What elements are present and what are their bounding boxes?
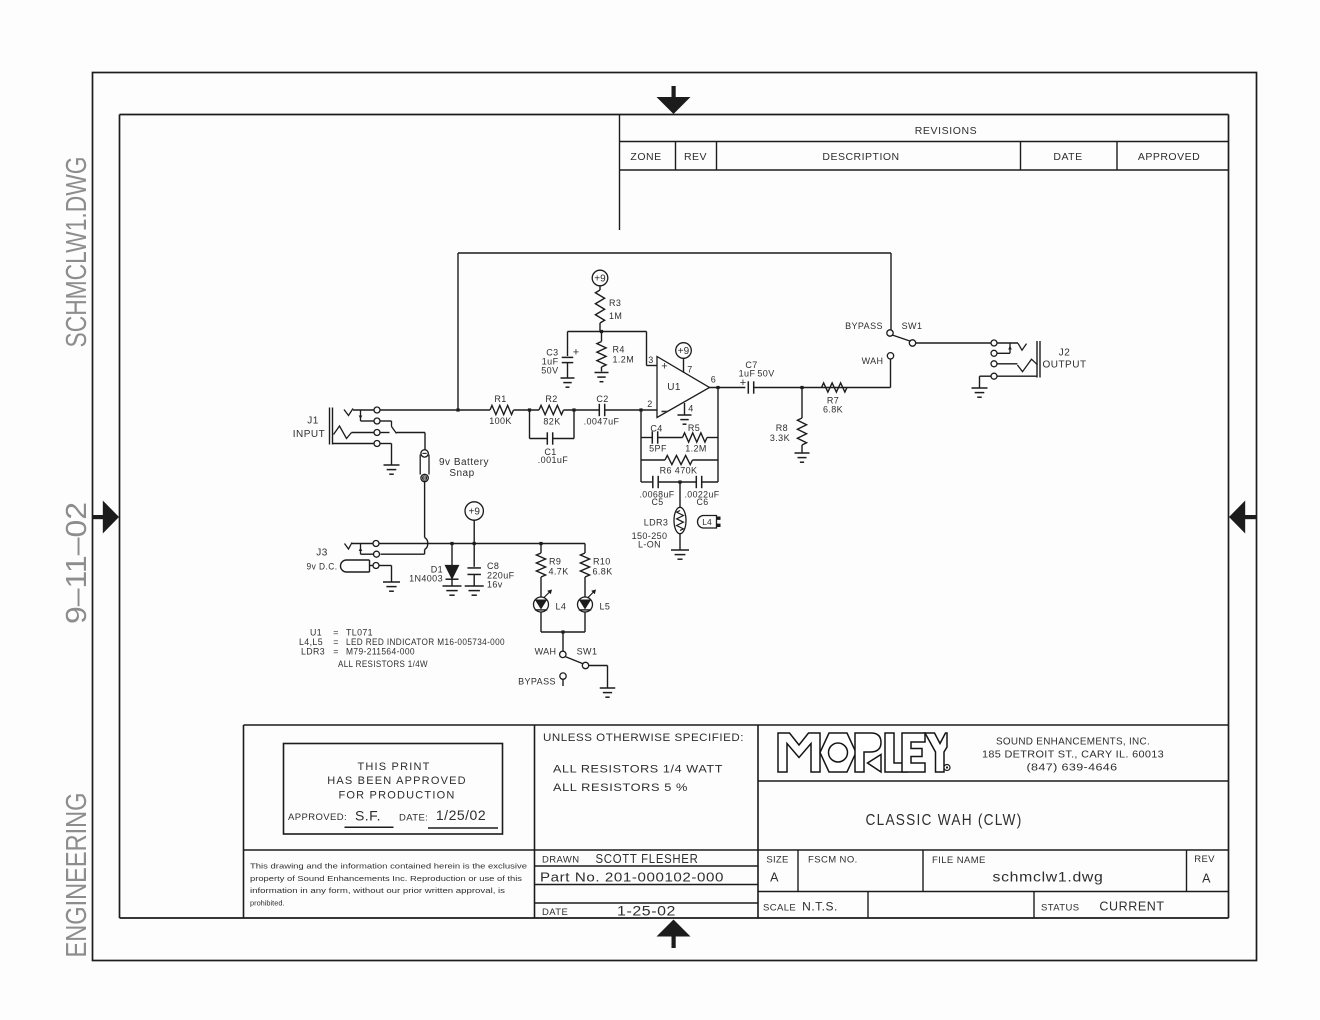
svg-text:L4: L4 xyxy=(556,602,567,612)
svg-text:.0047uF: .0047uF xyxy=(584,417,620,427)
svg-text:50V: 50V xyxy=(541,366,558,376)
svg-text:100K: 100K xyxy=(489,416,512,426)
svg-text:DATE: DATE xyxy=(1053,151,1082,163)
svg-text:=: = xyxy=(333,628,339,638)
svg-text:DRAWN: DRAWN xyxy=(542,855,580,866)
svg-text:9v Battery: 9v Battery xyxy=(439,457,489,468)
svg-text:M79-211564-000: M79-211564-000 xyxy=(346,647,415,657)
svg-text:This drawing and the informati: This drawing and the information contain… xyxy=(250,862,527,871)
svg-text:1M: 1M xyxy=(609,311,622,321)
svg-text:R4: R4 xyxy=(613,345,625,355)
svg-text:CURRENT: CURRENT xyxy=(1099,900,1164,914)
svg-text:BYPASS: BYPASS xyxy=(518,677,556,687)
svg-text:6.8K: 6.8K xyxy=(823,405,843,415)
svg-text:BYPASS: BYPASS xyxy=(845,321,883,331)
svg-text:C8: C8 xyxy=(487,561,499,571)
svg-text:LDR3: LDR3 xyxy=(301,647,325,657)
svg-text:DATE:: DATE: xyxy=(399,813,428,824)
svg-text:6.8K: 6.8K xyxy=(593,567,613,577)
svg-text:schmclw1.dwg: schmclw1.dwg xyxy=(993,870,1104,885)
svg-text:R8: R8 xyxy=(776,423,788,433)
svg-text:REV: REV xyxy=(1194,854,1215,865)
svg-text:C4: C4 xyxy=(650,424,662,434)
svg-text:INPUT: INPUT xyxy=(293,429,326,440)
svg-text:R3: R3 xyxy=(609,298,621,308)
svg-text:UNLESS OTHERWISE SPECIFIED:: UNLESS OTHERWISE SPECIFIED: xyxy=(543,732,744,744)
svg-text:50V: 50V xyxy=(757,369,774,379)
svg-text:APPROVED: APPROVED xyxy=(1138,151,1200,163)
svg-text:2: 2 xyxy=(647,399,652,409)
svg-text:1.2M: 1.2M xyxy=(685,444,707,454)
svg-text:L-ON: L-ON xyxy=(638,540,661,550)
svg-text:4.7K: 4.7K xyxy=(549,567,569,577)
svg-text:82K: 82K xyxy=(543,417,560,427)
svg-text:Part No. 201-000102-000: Part No. 201-000102-000 xyxy=(540,870,724,885)
svg-text:SOUND ENHANCEMENTS, INC.: SOUND ENHANCEMENTS, INC. xyxy=(996,737,1150,748)
svg-text:1/25/02: 1/25/02 xyxy=(436,807,486,823)
svg-text:WAH: WAH xyxy=(862,356,884,366)
svg-text:1.2M: 1.2M xyxy=(613,355,635,365)
svg-text:STATUS: STATUS xyxy=(1041,903,1079,914)
svg-text:1uF: 1uF xyxy=(739,369,756,379)
svg-text:+: + xyxy=(661,361,667,373)
svg-text:+: + xyxy=(740,377,746,389)
svg-text:prohibited.: prohibited. xyxy=(250,898,285,907)
svg-text:C6: C6 xyxy=(696,497,708,507)
svg-text:A: A xyxy=(1202,872,1211,886)
svg-text:3: 3 xyxy=(648,355,653,365)
svg-text:LDR3: LDR3 xyxy=(644,518,669,528)
svg-text:L4,L5: L4,L5 xyxy=(299,637,323,647)
svg-text:+9: +9 xyxy=(678,346,690,357)
svg-text:=: = xyxy=(333,637,339,647)
svg-text:R2: R2 xyxy=(545,394,557,404)
svg-text:J2: J2 xyxy=(1059,348,1071,359)
svg-text:ALL RESISTORS 1/4W: ALL RESISTORS 1/4W xyxy=(338,659,428,669)
svg-text:S.F.: S.F. xyxy=(355,808,381,824)
svg-text:=: = xyxy=(333,647,339,657)
svg-text:SCOTT FLESHER: SCOTT FLESHER xyxy=(596,851,699,866)
svg-text:R10: R10 xyxy=(593,557,611,567)
svg-text:J3: J3 xyxy=(316,548,328,559)
svg-text:L5: L5 xyxy=(600,602,611,612)
svg-text:C2: C2 xyxy=(596,394,608,404)
svg-text:ALL RESISTORS 5 %: ALL RESISTORS 5 % xyxy=(553,782,688,794)
svg-text:property of Sound Enhancements: property of Sound Enhancements Inc. Repr… xyxy=(250,874,522,883)
svg-text:THIS PRINT: THIS PRINT xyxy=(357,761,430,773)
svg-text:R1: R1 xyxy=(494,394,506,404)
svg-text:6: 6 xyxy=(711,375,716,385)
svg-text:R9: R9 xyxy=(549,557,561,567)
svg-text:FOR PRODUCTION: FOR PRODUCTION xyxy=(338,790,455,802)
svg-text:Snap: Snap xyxy=(449,468,474,479)
svg-text:U1: U1 xyxy=(667,382,681,393)
svg-text:16v: 16v xyxy=(487,580,503,590)
svg-text:9v D.C.: 9v D.C. xyxy=(307,562,338,573)
svg-text:+9: +9 xyxy=(594,273,606,284)
svg-text:FSCM NO.: FSCM NO. xyxy=(808,855,858,866)
svg-text:LED RED INDICATOR M16-005734-0: LED RED INDICATOR M16-005734-000 xyxy=(346,637,505,647)
svg-text:TL071: TL071 xyxy=(346,628,373,638)
svg-text:N.T.S.: N.T.S. xyxy=(802,900,838,914)
svg-text:WAH: WAH xyxy=(535,647,557,657)
svg-text:OUTPUT: OUTPUT xyxy=(1042,360,1086,371)
svg-text:SW1: SW1 xyxy=(577,647,598,657)
svg-text:CLASSIC WAH (CLW): CLASSIC WAH (CLW) xyxy=(866,812,1023,829)
svg-text:1N4003: 1N4003 xyxy=(409,574,443,584)
svg-text:REV: REV xyxy=(684,151,707,163)
svg-text:C5: C5 xyxy=(651,497,663,507)
svg-text:R6 470K: R6 470K xyxy=(660,466,698,476)
svg-text:HAS BEEN APPROVED: HAS BEEN APPROVED xyxy=(327,775,467,787)
svg-text:REVISIONS: REVISIONS xyxy=(915,125,978,137)
svg-text:information in any form, witho: information in any form, without our pri… xyxy=(250,886,505,895)
svg-text:1-25-02: 1-25-02 xyxy=(617,904,676,919)
svg-text:+: + xyxy=(573,347,579,359)
svg-text:7: 7 xyxy=(687,365,692,375)
svg-text:L4: L4 xyxy=(702,517,712,527)
svg-text:SCALE: SCALE xyxy=(763,903,796,914)
svg-text:APPROVED:: APPROVED: xyxy=(288,812,347,823)
svg-text:DATE: DATE xyxy=(542,907,568,918)
svg-text:SW1: SW1 xyxy=(902,321,923,331)
svg-text:4: 4 xyxy=(688,404,693,414)
svg-text:+9: +9 xyxy=(468,506,480,517)
svg-text:U1: U1 xyxy=(310,628,322,638)
svg-text:SCHMCLW1.DWG: SCHMCLW1.DWG xyxy=(61,157,93,348)
svg-text:3.3K: 3.3K xyxy=(770,433,790,443)
svg-text:ZONE: ZONE xyxy=(630,151,661,163)
svg-text:FILE NAME: FILE NAME xyxy=(932,855,986,866)
svg-text:A: A xyxy=(770,871,779,885)
svg-text:9–11–02: 9–11–02 xyxy=(61,502,93,624)
svg-text:5PF: 5PF xyxy=(649,444,667,454)
svg-text:ALL RESISTORS 1/4 WATT: ALL RESISTORS 1/4 WATT xyxy=(553,764,723,776)
svg-text:J1: J1 xyxy=(307,416,319,427)
svg-text:R5: R5 xyxy=(688,423,700,433)
svg-text:ENGINEERING: ENGINEERING xyxy=(61,793,93,958)
svg-text:(847) 639-4646: (847) 639-4646 xyxy=(1027,763,1118,774)
svg-text:185 DETROIT ST., CARY IL. 6001: 185 DETROIT ST., CARY IL. 60013 xyxy=(982,750,1164,761)
svg-text:DESCRIPTION: DESCRIPTION xyxy=(822,151,899,163)
svg-text:SIZE: SIZE xyxy=(766,855,788,866)
svg-text:.001uF: .001uF xyxy=(538,455,569,465)
